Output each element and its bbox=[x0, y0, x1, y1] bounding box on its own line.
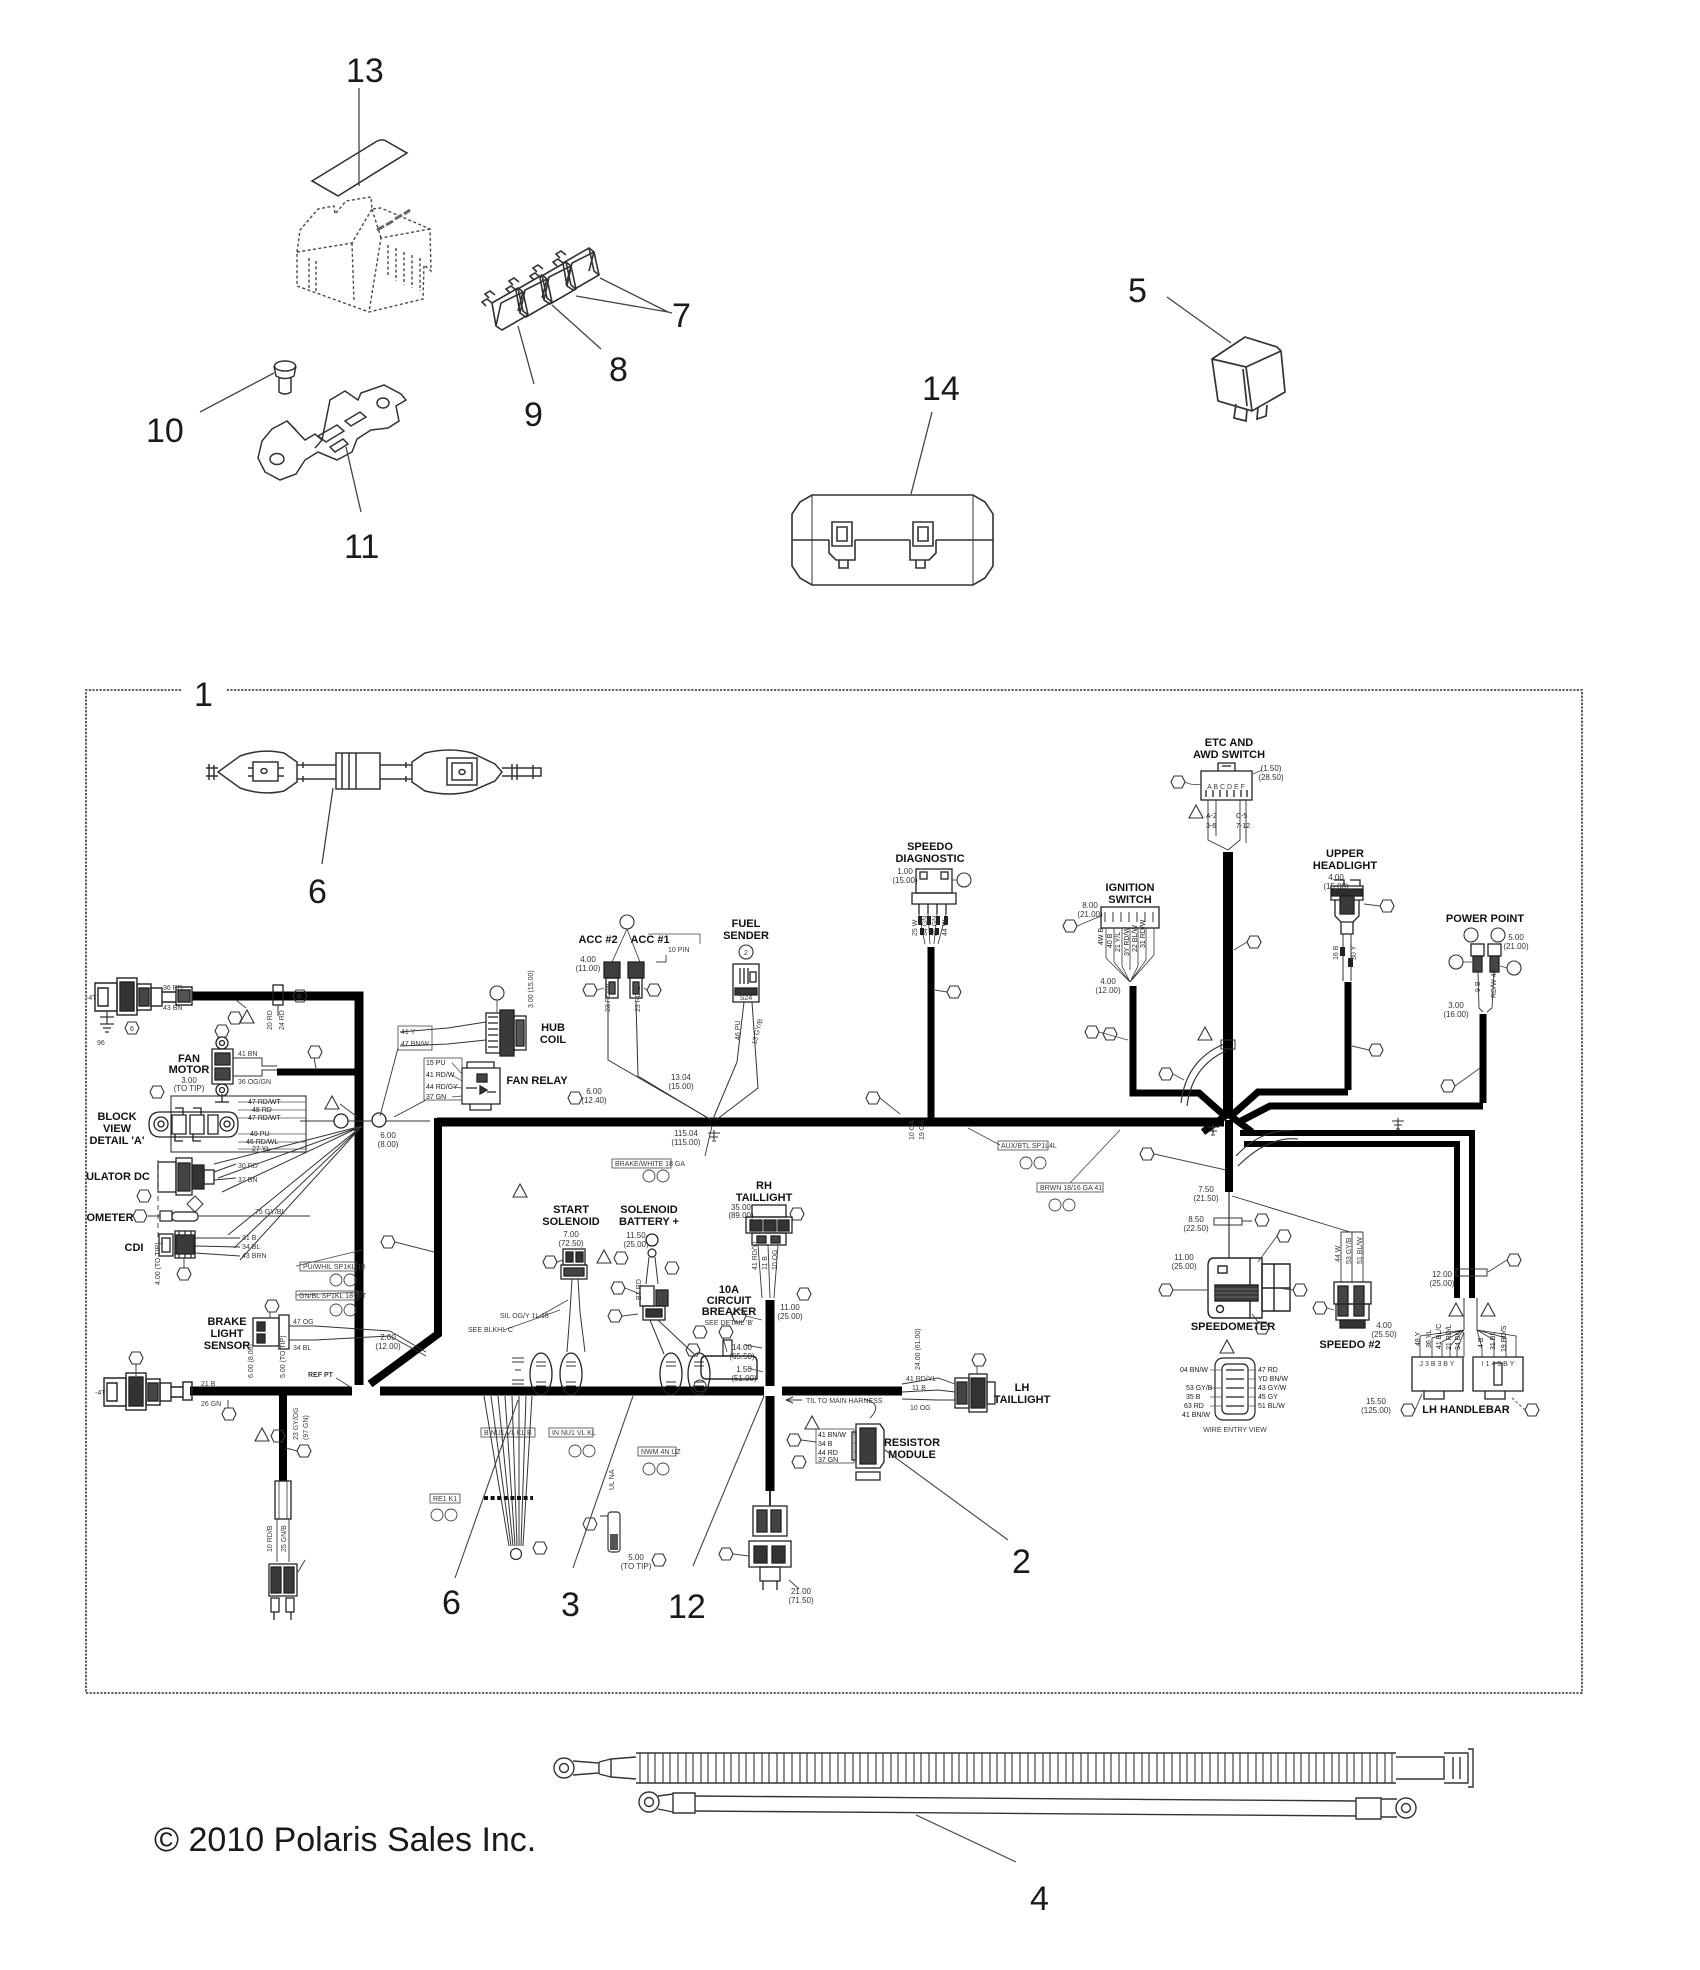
svg-text:31 BL: 31 BL bbox=[1490, 1332, 1497, 1350]
svg-text:11 B: 11 B bbox=[912, 1385, 926, 1392]
svg-text:HEADLIGHT: HEADLIGHT bbox=[1313, 860, 1377, 872]
svg-text:40 B: 40 B bbox=[1107, 933, 1114, 948]
svg-text:-4T: -4T bbox=[95, 1390, 106, 1397]
svg-text:(25.00): (25.00) bbox=[1429, 1279, 1455, 1288]
svg-text:10 OG: 10 OG bbox=[772, 1249, 779, 1270]
svg-text:NWM 4N UZ: NWM 4N UZ bbox=[641, 1449, 681, 1456]
svg-text:3-6: 3-6 bbox=[1206, 823, 1216, 830]
below junction label bbox=[705, 1126, 712, 1156]
svg-text:53 GY/B: 53 GY/B bbox=[1186, 1385, 1213, 1392]
svg-text:RD/W 43: RD/W 43 bbox=[1491, 970, 1498, 999]
svg-text:37 GN: 37 GN bbox=[818, 1457, 838, 1464]
svg-text:BLOCK: BLOCK bbox=[97, 1111, 136, 1123]
hex 66 on vertical bbox=[381, 1236, 395, 1248]
leader to 10 bbox=[200, 373, 274, 412]
hex 6 bbox=[125, 1022, 139, 1034]
svg-text:63 RD: 63 RD bbox=[1184, 1403, 1204, 1410]
block view wire labels bbox=[246, 1099, 281, 1153]
fuse box cover (dashed) bbox=[297, 197, 431, 312]
svg-text:1.50: 1.50 bbox=[736, 1365, 752, 1374]
svg-text:21 B: 21 B bbox=[201, 1381, 216, 1388]
svg-text:7: 7 bbox=[672, 297, 691, 335]
svg-text:10 GA: 10 GA bbox=[909, 1120, 916, 1140]
hub junction blob bbox=[1203, 1114, 1252, 1132]
svg-text:OMETER: OMETER bbox=[86, 1212, 133, 1224]
svg-text:75 GY/BL: 75 GY/BL bbox=[255, 1209, 285, 1216]
svg-text:4.00: 4.00 bbox=[580, 955, 596, 964]
svg-text:© 2010 Polaris Sales Inc.: © 2010 Polaris Sales Inc. bbox=[154, 1821, 536, 1859]
svg-text:(25.50): (25.50) bbox=[1371, 1330, 1397, 1339]
svg-text:8: 8 bbox=[609, 351, 628, 389]
hex 45 near ignition drop bbox=[1103, 1028, 1117, 1040]
svg-text:COIL: COIL bbox=[540, 1034, 567, 1046]
svg-text:46 RD/WL: 46 RD/WL bbox=[246, 1139, 278, 1146]
svg-text:23 GY/OG: 23 GY/OG bbox=[293, 1407, 300, 1440]
svg-text:ULATOR DC: ULATOR DC bbox=[86, 1171, 150, 1183]
wire: headlight elbow bbox=[1231, 982, 1348, 1116]
junction fan: ACC + fuel sender wires bbox=[608, 1001, 758, 1120]
fan motor wires to bar bbox=[233, 1058, 277, 1076]
svg-text:B: B bbox=[297, 994, 302, 1001]
svg-text:IGNITION: IGNITION bbox=[1106, 882, 1155, 894]
svg-text:41 BN/W: 41 BN/W bbox=[818, 1432, 846, 1439]
svg-text:19 RD/S: 19 RD/S bbox=[1501, 1325, 1508, 1352]
svg-text:12: 12 bbox=[668, 1588, 706, 1626]
svg-text:31 B: 31 B bbox=[242, 1235, 257, 1242]
svg-text:10 PIN: 10 PIN bbox=[668, 947, 689, 954]
svg-text:9: 9 bbox=[524, 396, 543, 434]
leader to sticker 13 bbox=[358, 88, 360, 186]
svg-text:15 PU: 15 PU bbox=[426, 1060, 445, 1067]
wire: mid trunk corner drop to REF PT bbox=[370, 1118, 438, 1384]
svg-text:UL NA: UL NA bbox=[609, 1469, 616, 1490]
svg-text:FUEL: FUEL bbox=[732, 918, 761, 930]
wire: main mid trunk bbox=[437, 1118, 1224, 1127]
svg-text:S24: S24 bbox=[740, 995, 753, 1002]
svg-text:96: 96 bbox=[97, 1040, 105, 1047]
svg-text:3.00: 3.00 bbox=[1448, 1001, 1464, 1010]
svg-text:13.04: 13.04 bbox=[671, 1073, 692, 1082]
svg-text:DIAGNOSTIC: DIAGNOSTIC bbox=[895, 853, 964, 865]
svg-text:SPEEDO: SPEEDO bbox=[907, 841, 953, 853]
svg-text:22 BL/W: 22 BL/W bbox=[1132, 925, 1139, 952]
svg-text:(21.00): (21.00) bbox=[1503, 942, 1529, 951]
svg-text:TAILLIGHT: TAILLIGHT bbox=[994, 1394, 1051, 1406]
connector 4T upper-left bbox=[95, 978, 192, 1015]
svg-text:43 BN: 43 BN bbox=[163, 1005, 182, 1012]
grommet ovals on trunk bbox=[530, 1353, 710, 1395]
svg-text:7-12: 7-12 bbox=[1236, 823, 1250, 830]
svg-text:6.00: 6.00 bbox=[380, 1131, 396, 1140]
svg-text:SENSOR: SENSOR bbox=[204, 1340, 251, 1352]
speedometer body bbox=[1208, 1258, 1290, 1318]
svg-text:(22.50): (22.50) bbox=[1183, 1224, 1209, 1233]
svg-text:14.00: 14.00 bbox=[732, 1343, 753, 1352]
svg-text:(125.00): (125.00) bbox=[1361, 1406, 1391, 1415]
svg-text:BATTERY +: BATTERY + bbox=[619, 1216, 679, 1228]
fuse block detail bbox=[149, 1108, 238, 1141]
svg-text:(8.00): (8.00) bbox=[378, 1140, 399, 1149]
svg-text:41 RD/YL: 41 RD/YL bbox=[752, 1240, 759, 1270]
svg-text:36 OG/GN: 36 OG/GN bbox=[238, 1079, 271, 1086]
dashed divider bbox=[157, 1160, 159, 1240]
svg-text:44 W: 44 W bbox=[1335, 1245, 1342, 1262]
wire: speedo diagnostic drop bbox=[928, 947, 935, 1118]
svg-text:47 BN/W: 47 BN/W bbox=[401, 1041, 429, 1048]
svg-text:24 RD: 24 RD bbox=[279, 1010, 286, 1030]
lower-left connector bbox=[104, 1373, 192, 1410]
hex 43 on brake drop bbox=[297, 1445, 311, 1457]
svg-text:7.50: 7.50 bbox=[1198, 1185, 1214, 1194]
svg-text:PU/WHIL SP1KL 18: PU/WHIL SP1KL 18 bbox=[303, 1264, 365, 1271]
svg-text:23 RD/W: 23 RD/W bbox=[605, 983, 612, 1012]
svg-text:SWITCH: SWITCH bbox=[1108, 894, 1151, 906]
ground symbols near hub bbox=[1207, 1124, 1219, 1135]
svg-text:41 RD/W: 41 RD/W bbox=[426, 1072, 455, 1079]
svg-text:6.00: 6.00 bbox=[586, 1087, 602, 1096]
svg-text:49 PU: 49 PU bbox=[250, 1131, 269, 1138]
svg-text:FAN RELAY: FAN RELAY bbox=[506, 1075, 568, 1087]
fuse box slot marks bbox=[377, 210, 410, 230]
svg-text:41 BN: 41 BN bbox=[238, 1051, 257, 1058]
relay item 5 bbox=[1212, 337, 1285, 421]
svg-text:-4T: -4T bbox=[86, 995, 97, 1002]
svg-text:4.00 (TO TIP): 4.00 (TO TIP) bbox=[155, 1242, 162, 1285]
svg-text:LH HANDLEBAR: LH HANDLEBAR bbox=[1422, 1404, 1509, 1416]
svg-text:(89.00): (89.00) bbox=[728, 1211, 754, 1220]
svg-text:10 RD/B: 10 RD/B bbox=[267, 1525, 274, 1552]
wire: fan motor bar bbox=[277, 1069, 359, 1076]
svg-text:(72.50): (72.50) bbox=[558, 1239, 584, 1248]
fuse relays items 7,8,9 bbox=[482, 248, 599, 330]
svg-text:23 RD/B: 23 RD/B bbox=[635, 985, 642, 1012]
bracket item 11 bbox=[258, 385, 406, 480]
svg-text:(16.00): (16.00) bbox=[1443, 1010, 1469, 1019]
svg-text:21.00: 21.00 bbox=[791, 1587, 812, 1596]
svg-text:I 1 4 3 B Y: I 1 4 3 B Y bbox=[1482, 1361, 1515, 1368]
callout 12 bbox=[693, 1396, 764, 1566]
junction circles on mid line bbox=[300, 1120, 430, 1122]
svg-text:POWER POINT: POWER POINT bbox=[1446, 913, 1525, 925]
svg-text:ACC #2: ACC #2 bbox=[578, 934, 617, 946]
svg-text:(15.00): (15.00) bbox=[892, 876, 918, 885]
svg-text:J 3 B 3 B Y: J 3 B 3 B Y bbox=[1420, 1361, 1455, 1368]
svg-text:(25.00): (25.00) bbox=[623, 1240, 649, 1249]
svg-text:21 Y/L: 21 Y/L bbox=[1115, 932, 1122, 952]
svg-text:(12.00): (12.00) bbox=[375, 1342, 401, 1351]
leader to 8 bbox=[552, 305, 601, 349]
svg-text:SPEEDOMETER: SPEEDOMETER bbox=[1191, 1321, 1275, 1333]
svg-text:(65.50): (65.50) bbox=[729, 1352, 755, 1361]
svg-text:(11.00): (11.00) bbox=[576, 964, 601, 973]
svg-text:(115.00): (115.00) bbox=[671, 1138, 701, 1147]
svg-text:8.00: 8.00 bbox=[1082, 901, 1098, 910]
svg-text:(71.50): (71.50) bbox=[788, 1596, 814, 1605]
svg-text:SOLENOID: SOLENOID bbox=[620, 1204, 678, 1216]
svg-text:25 GN/B: 25 GN/B bbox=[281, 1525, 288, 1552]
svg-text:47 OG: 47 OG bbox=[293, 1319, 314, 1326]
hex 25 above fan motor bbox=[215, 1025, 229, 1037]
inline fuse on trunk bbox=[273, 985, 283, 1005]
svg-text:YD BN/W: YD BN/W bbox=[1258, 1376, 1288, 1383]
svg-text:4 B: 4 B bbox=[1478, 1337, 1485, 1348]
svg-text:4.00: 4.00 bbox=[1376, 1321, 1392, 1330]
svg-text:AUX/BTL SP1L4L: AUX/BTL SP1L4L bbox=[1001, 1143, 1057, 1150]
svg-text:41 RD/YL: 41 RD/YL bbox=[906, 1376, 936, 1383]
svg-text:48 Y: 48 Y bbox=[1415, 1331, 1422, 1346]
svg-text:RE1 K1: RE1 K1 bbox=[433, 1496, 457, 1503]
svg-text:44 RD/GY: 44 RD/GY bbox=[426, 1084, 458, 1091]
svg-text:4: 4 bbox=[1030, 1880, 1049, 1918]
svg-text:8.50: 8.50 bbox=[1188, 1215, 1204, 1224]
svg-text:45 GY: 45 GY bbox=[1258, 1394, 1278, 1401]
svg-text:1: 1 bbox=[194, 676, 213, 714]
svg-text:(21.00): (21.00) bbox=[1077, 910, 1103, 919]
svg-text:IN NU1 VL KL: IN NU1 VL KL bbox=[552, 1430, 596, 1437]
svg-text:15.50: 15.50 bbox=[1366, 1397, 1387, 1406]
svg-text:34 BL: 34 BL bbox=[293, 1345, 311, 1352]
svg-text:BT RD: BT RD bbox=[636, 1279, 643, 1300]
svg-text:51 BL/W: 51 BL/W bbox=[1357, 1237, 1364, 1264]
wire fan from junction to lower-left bbox=[214, 1126, 362, 1260]
svg-text:115.04: 115.04 bbox=[674, 1129, 698, 1138]
wire entry pin detail bbox=[1220, 1340, 1234, 1353]
svg-text:MOTOR: MOTOR bbox=[169, 1064, 210, 1076]
svg-text:MODULE: MODULE bbox=[888, 1449, 936, 1461]
curved hose arcs near hub bbox=[1181, 1044, 1224, 1103]
battery cable (corrugated) item 4 bbox=[554, 1749, 1473, 1787]
cable ribs bbox=[640, 1753, 1392, 1783]
svg-text:HUB: HUB bbox=[541, 1022, 565, 1034]
svg-text:SOLENOID: SOLENOID bbox=[542, 1216, 600, 1228]
warning + hex 40 bbox=[240, 1010, 254, 1023]
svg-text:(97 GN): (97 GN) bbox=[303, 1415, 310, 1440]
svg-text:(21.50): (21.50) bbox=[1193, 1194, 1219, 1203]
svg-text:20 RD: 20 RD bbox=[267, 1010, 274, 1030]
harness assembly border box item 1 bbox=[86, 690, 1582, 1693]
svg-text:SENDER: SENDER bbox=[723, 930, 769, 942]
wire bundle (to item 6 leader) bbox=[484, 1396, 532, 1546]
svg-text:53 GY/B: 53 GY/B bbox=[1346, 1237, 1353, 1264]
svg-text:43 GY/W: 43 GY/W bbox=[1258, 1385, 1287, 1392]
svg-text:13: 13 bbox=[346, 52, 384, 90]
wire: lower trunk bbox=[190, 1387, 902, 1396]
svg-text:(25.00): (25.00) bbox=[1171, 1262, 1197, 1271]
leaders to 7 bbox=[576, 278, 672, 313]
svg-text:AWD SWITCH: AWD SWITCH bbox=[1193, 749, 1265, 761]
svg-text:47 RD/WT: 47 RD/WT bbox=[248, 1115, 281, 1122]
svg-text:21 RD/L: 21 RD/L bbox=[1446, 1324, 1453, 1350]
wire: power point elbow bbox=[1241, 1014, 1483, 1121]
wire: RH taillight drop bbox=[766, 1300, 775, 1491]
ground strap cable item 4 bbox=[639, 1792, 1416, 1819]
svg-text:11.50: 11.50 bbox=[626, 1231, 646, 1240]
svg-text:16 B: 16 B bbox=[1333, 945, 1340, 960]
svg-text:37 BN: 37 BN bbox=[238, 1177, 257, 1184]
svg-text:11.00: 11.00 bbox=[1174, 1253, 1194, 1262]
callout 3 bbox=[573, 1396, 633, 1568]
svg-text:11 B: 11 B bbox=[762, 1256, 769, 1270]
svg-text:(15.00): (15.00) bbox=[668, 1082, 694, 1091]
svg-text:10 OG: 10 OG bbox=[910, 1405, 931, 1412]
svg-text:(12.40): (12.40) bbox=[581, 1096, 607, 1105]
svg-text:2: 2 bbox=[744, 950, 748, 957]
boxed wire labels under trunk bbox=[481, 1428, 535, 1437]
svg-text:47 RD/WT: 47 RD/WT bbox=[248, 1099, 281, 1106]
svg-text:5.00: 5.00 bbox=[628, 1553, 644, 1562]
svg-text:25 W: 25 W bbox=[912, 919, 919, 936]
svg-text:31 RD/W: 31 RD/W bbox=[1140, 919, 1147, 948]
svg-text:5: 5 bbox=[1128, 272, 1147, 310]
svg-text:41 Y: 41 Y bbox=[401, 1029, 416, 1036]
wire: right inner elbow bbox=[1244, 1144, 1457, 1298]
svg-text:11: 11 bbox=[344, 528, 379, 566]
svg-text:ACC #1: ACC #1 bbox=[630, 934, 669, 946]
svg-text:6: 6 bbox=[130, 1026, 134, 1033]
hexes below lower trunk left bbox=[222, 1408, 236, 1420]
svg-text:41 BL/C: 41 BL/C bbox=[1436, 1324, 1443, 1349]
warning tri near vertical bbox=[325, 1096, 339, 1109]
wire: brake connector drop bbox=[279, 1395, 287, 1481]
leader from trunk to fuse bbox=[236, 1000, 246, 1008]
svg-text:3.00 (15.00): 3.00 (15.00) bbox=[528, 970, 535, 1008]
callout 6 lower bbox=[455, 1400, 518, 1578]
svg-text:REF PT: REF PT bbox=[308, 1372, 334, 1379]
svg-text:(51.00): (51.00) bbox=[731, 1374, 757, 1383]
svg-text:SEE BLKHL C: SEE BLKHL C bbox=[468, 1327, 513, 1334]
hex 62 right of ETC wire bbox=[1247, 936, 1261, 948]
sticker item 13 bbox=[312, 140, 407, 196]
svg-text:WIRE ENTRY VIEW: WIRE ENTRY VIEW bbox=[1203, 1427, 1267, 1434]
svg-text:START: START bbox=[553, 1204, 589, 1216]
svg-text:RH: RH bbox=[756, 1180, 772, 1192]
wire: ignition elbow bbox=[1133, 986, 1226, 1117]
svg-text:14: 14 bbox=[922, 370, 960, 408]
small capsule component bbox=[608, 1512, 620, 1552]
svg-text:VIEW: VIEW bbox=[103, 1123, 132, 1135]
svg-text:UPPER: UPPER bbox=[1326, 848, 1364, 860]
svg-text:(TO TIP): (TO TIP) bbox=[174, 1084, 205, 1093]
brake drop connector chain bbox=[275, 1481, 291, 1519]
callout 2 bbox=[885, 1450, 1008, 1540]
svg-text:3Y RD/W: 3Y RD/W bbox=[1124, 927, 1131, 956]
svg-text:5.00: 5.00 bbox=[1508, 933, 1524, 942]
svg-text:24.00 (61.00): 24.00 (61.00) bbox=[915, 1328, 922, 1370]
svg-text:BRAKE: BRAKE bbox=[207, 1316, 246, 1328]
cover item 14 bbox=[792, 495, 993, 585]
block view frame bbox=[171, 1096, 306, 1152]
svg-text:A B C D E F: A B C D E F bbox=[1207, 784, 1245, 791]
leader to 6 bbox=[322, 788, 333, 864]
hex 44 on bar bbox=[308, 1046, 322, 1058]
wire: upper-left trunk bbox=[192, 996, 359, 1385]
SPEEDO #2 bbox=[1232, 1196, 1350, 1232]
svg-text:(TO TIP): (TO TIP) bbox=[621, 1562, 652, 1571]
svg-text:(12.00): (12.00) bbox=[1095, 986, 1121, 995]
svg-text:48 RD: 48 RD bbox=[252, 1107, 272, 1114]
svg-text:(28.50): (28.50) bbox=[1258, 773, 1284, 782]
svg-text:1.00: 1.00 bbox=[897, 867, 913, 876]
ground symbol below 4T bbox=[100, 1012, 114, 1032]
svg-text:6: 6 bbox=[308, 873, 327, 911]
wire: hub stub below bbox=[1225, 1120, 1233, 1192]
svg-text:7.00: 7.00 bbox=[563, 1230, 579, 1239]
svg-text:36 YL: 36 YL bbox=[1426, 1330, 1433, 1348]
svg-text:6.00 (8.00): 6.00 (8.00) bbox=[248, 1344, 255, 1378]
svg-text:36 RD: 36 RD bbox=[163, 985, 183, 992]
boxed wire labels above REF PT bbox=[300, 1262, 356, 1271]
svg-text:26 GN: 26 GN bbox=[201, 1401, 221, 1408]
svg-text:4W B: 4W B bbox=[1098, 928, 1105, 945]
ground symbol mid trunk bbox=[708, 1130, 720, 1141]
svg-text:44 RD: 44 RD bbox=[818, 1450, 838, 1457]
svg-text:51 BL/W: 51 BL/W bbox=[1258, 1403, 1285, 1410]
svg-text:30 RD: 30 RD bbox=[238, 1163, 258, 1170]
fan motor connector bbox=[212, 1037, 233, 1102]
speed sensor chain below bbox=[749, 1506, 791, 1590]
svg-text:10: 10 bbox=[146, 412, 184, 450]
svg-text:11.00: 11.00 bbox=[780, 1303, 800, 1312]
svg-text:4.00: 4.00 bbox=[1100, 977, 1116, 986]
svg-text:ETC AND: ETC AND bbox=[1205, 737, 1254, 749]
leader to 4 bbox=[916, 1815, 1016, 1862]
svg-text:35 B: 35 B bbox=[1186, 1394, 1201, 1401]
svg-text:46 PU: 46 PU bbox=[735, 1021, 742, 1040]
wire: ETC vertical bbox=[1223, 852, 1233, 1114]
hex 43 left of speedo drop bbox=[866, 1092, 880, 1104]
push pin item 10 bbox=[274, 361, 296, 394]
svg-text:3: 3 bbox=[561, 1586, 580, 1624]
svg-text:LIGHT: LIGHT bbox=[211, 1328, 244, 1340]
svg-text:6: 6 bbox=[442, 1584, 461, 1622]
svg-text:BRAKE/WHITE 18 GA: BRAKE/WHITE 18 GA bbox=[615, 1161, 685, 1168]
svg-text:LH: LH bbox=[1015, 1382, 1030, 1394]
svg-text:34 BN: 34 BN bbox=[1455, 1331, 1462, 1350]
svg-text:2: 2 bbox=[1012, 1543, 1031, 1581]
svg-text:BRWN 18/16 GA 41: BRWN 18/16 GA 41 bbox=[1040, 1185, 1102, 1192]
svg-text:RESISTOR: RESISTOR bbox=[884, 1437, 940, 1449]
svg-text:34 BL: 34 BL bbox=[242, 1244, 260, 1251]
svg-text:2.00: 2.00 bbox=[380, 1333, 396, 1342]
leader to 5 bbox=[1167, 297, 1231, 343]
svg-text:SIL OG/Y 1L 18: SIL OG/Y 1L 18 bbox=[500, 1313, 549, 1320]
svg-text:5.00 (TO TIP): 5.00 (TO TIP) bbox=[280, 1335, 287, 1378]
svg-text:SPEEDO #2: SPEEDO #2 bbox=[1319, 1339, 1380, 1351]
svg-text:43 BRN: 43 BRN bbox=[242, 1253, 267, 1260]
svg-text:12.00: 12.00 bbox=[1432, 1270, 1453, 1279]
thin labels pointing at ovals bbox=[504, 1300, 568, 1330]
svg-text:CDI: CDI bbox=[125, 1242, 144, 1254]
svg-text:19 GA: 19 GA bbox=[919, 1120, 926, 1140]
svg-text:04 BN/W: 04 BN/W bbox=[1180, 1367, 1208, 1374]
svg-text:34 B: 34 B bbox=[818, 1441, 833, 1448]
svg-text:41 BN/W: 41 BN/W bbox=[1182, 1412, 1210, 1419]
leader to 9 bbox=[518, 326, 534, 384]
leader to 11 bbox=[346, 447, 361, 512]
svg-text:30 Y: 30 Y bbox=[1351, 945, 1358, 960]
svg-text:37 GN: 37 GN bbox=[426, 1094, 446, 1101]
wire: right outer elbow bbox=[1240, 1133, 1472, 1298]
svg-text:(25.00): (25.00) bbox=[777, 1312, 803, 1321]
svg-text:(1.50): (1.50) bbox=[1261, 764, 1282, 773]
svg-text:DETAIL 'A': DETAIL 'A' bbox=[90, 1135, 145, 1147]
leader to 14 bbox=[911, 412, 932, 494]
svg-text:47 RD: 47 RD bbox=[1258, 1367, 1278, 1374]
